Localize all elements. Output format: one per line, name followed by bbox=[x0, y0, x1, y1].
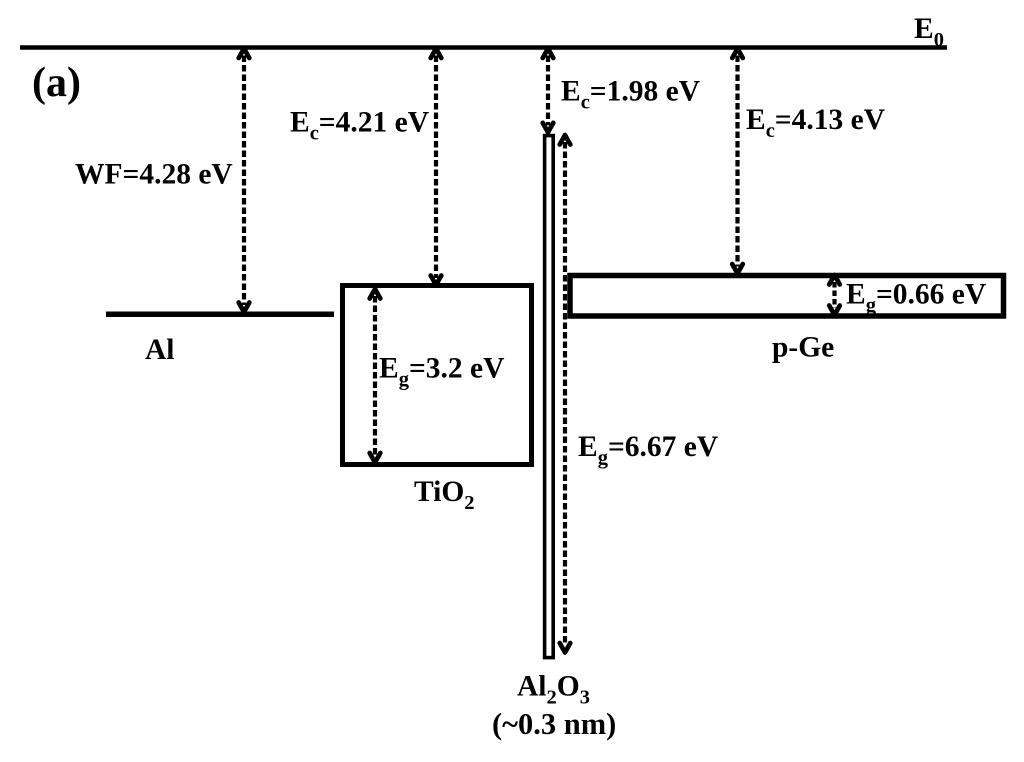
vacuum level line E0 bbox=[20, 45, 947, 50]
Al metal work-function level line bbox=[106, 311, 334, 317]
arrow Eg=3.2 eV inside TiO2 double-headed dashed bbox=[370, 289, 381, 463]
svg-text:Eg=6.67 eV: Eg=6.67 eV bbox=[578, 431, 718, 469]
svg-text:Ec=4.13 eV: Ec=4.13 eV bbox=[746, 104, 885, 142]
svg-text:Ec=4.21 eV: Ec=4.21 eV bbox=[290, 107, 429, 145]
Al2O3 barrier bar bbox=[545, 136, 554, 658]
svg-text:TiO2: TiO2 bbox=[414, 476, 475, 514]
TiO2 box bbox=[343, 286, 532, 465]
svg-text:(~0.3 nm): (~0.3 nm) bbox=[492, 707, 616, 741]
svg-text:Eg=3.2 eV: Eg=3.2 eV bbox=[379, 353, 504, 391]
arrow Ec=4.21 eV double-headed dashed bbox=[431, 49, 442, 286]
p-Ge box bbox=[570, 276, 1004, 317]
svg-text:WF=4.28 eV: WF=4.28 eV bbox=[75, 159, 233, 191]
svg-text:p-Ge: p-Ge bbox=[772, 332, 834, 364]
arrow WF=4.28 eV double-headed dashed bbox=[239, 49, 250, 313]
arrow Ec=1.98 eV double-headed dashed bbox=[543, 49, 554, 133]
svg-text:Eg=0.66 eV: Eg=0.66 eV bbox=[846, 279, 986, 317]
arrow Ec=4.13 eV double-headed dashed bbox=[732, 49, 743, 274]
svg-text:Al2O3: Al2O3 bbox=[517, 671, 590, 709]
svg-text:(a): (a) bbox=[32, 60, 81, 106]
svg-text:Ec=1.98 eV: Ec=1.98 eV bbox=[561, 76, 700, 114]
svg-text:Al: Al bbox=[145, 334, 175, 366]
arrow Eg=0.66 eV inside p-Ge double-headed dashed bbox=[829, 275, 840, 315]
arrow Eg=6.67 eV along Al2O3 double-headed dashed bbox=[560, 135, 571, 653]
